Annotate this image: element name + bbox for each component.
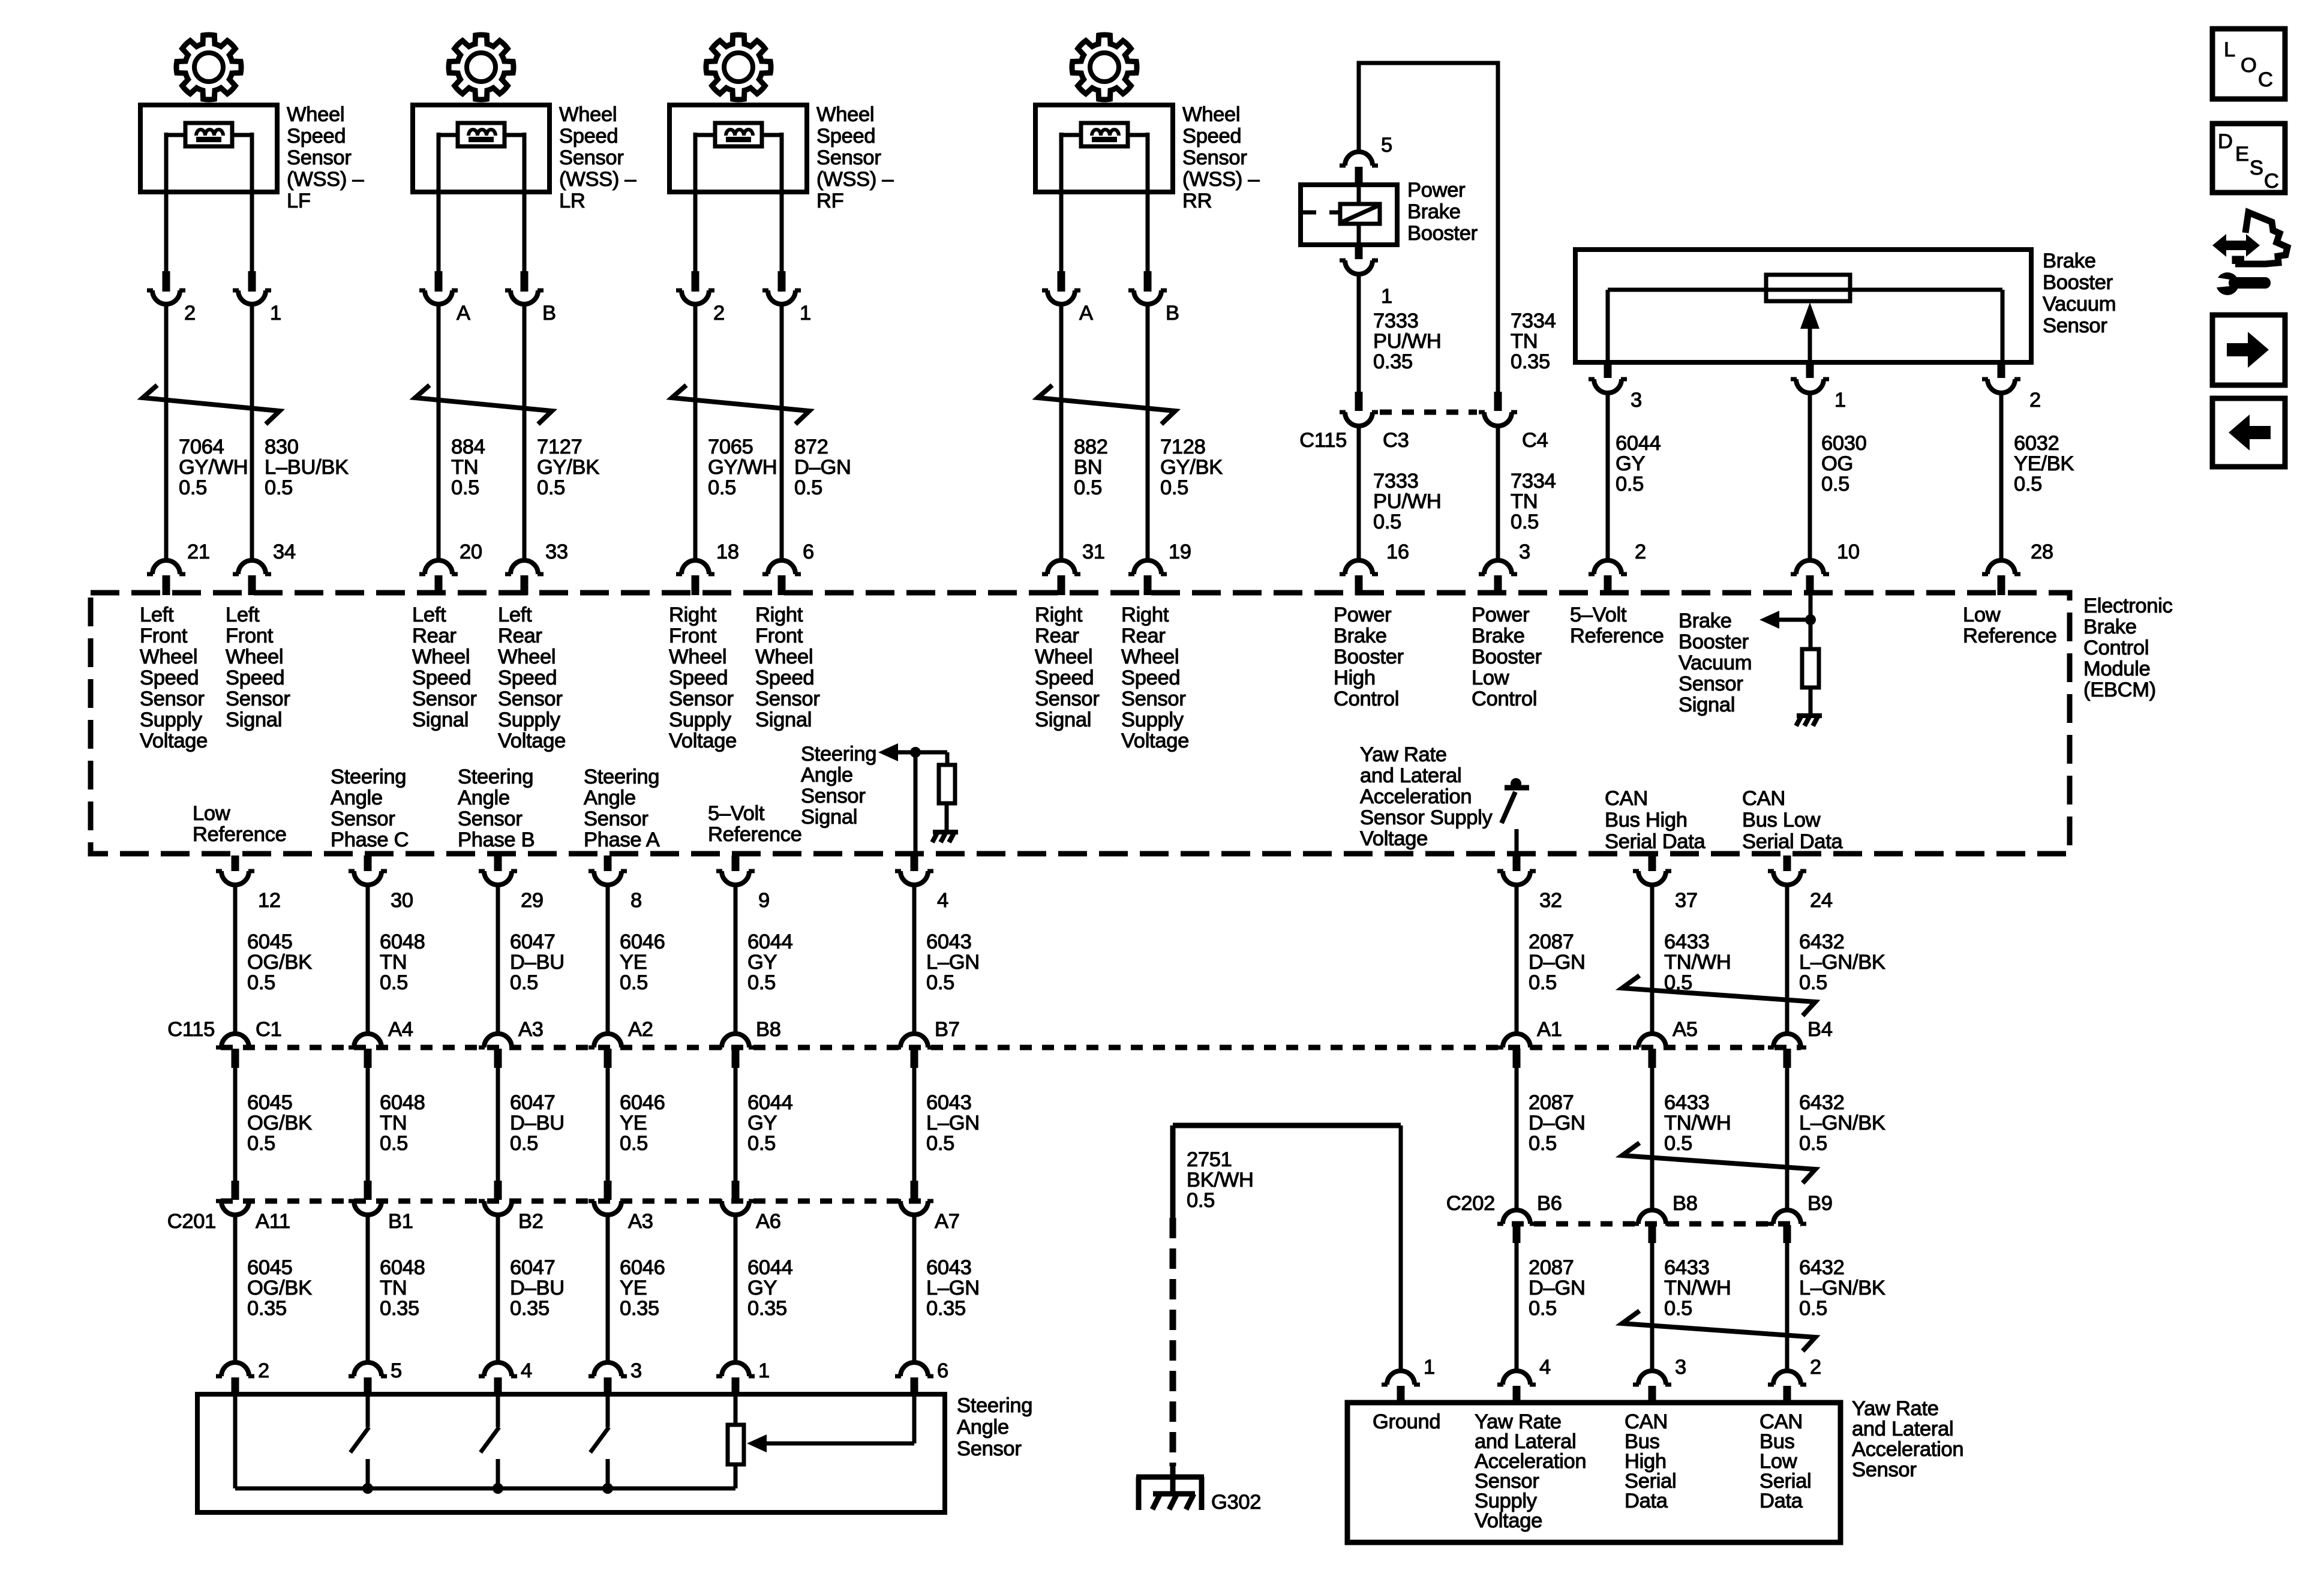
- wire 6045 OG/BK segment 2: [233, 1068, 238, 1181]
- svg-text:C201: C201: [167, 1210, 216, 1233]
- svg-text:Sensor Supply: Sensor Supply: [1360, 806, 1493, 829]
- svg-text:Booster: Booster: [1407, 222, 1478, 245]
- svg-text:6044: 6044: [747, 1091, 793, 1114]
- svg-text:32: 32: [1539, 889, 1562, 912]
- svg-text:0.5: 0.5: [1160, 476, 1188, 499]
- svg-text:4: 4: [521, 1359, 532, 1382]
- svg-text:5: 5: [1381, 134, 1392, 157]
- connector pin 1 power brake booster: [1355, 245, 1363, 259]
- dashed ground wire 2751: [1170, 1125, 1176, 1218]
- svg-text:(EBCM): (EBCM): [2083, 679, 2156, 701]
- svg-text:LR: LR: [559, 190, 585, 212]
- svg-text:0.5: 0.5: [537, 476, 565, 499]
- connector C115 cavity A2: [594, 1034, 621, 1047]
- wire 6433 TN/WH segment 2: [1650, 1068, 1655, 1209]
- svg-text:Serial Data: Serial Data: [1742, 830, 1843, 853]
- svg-text:7333: 7333: [1373, 310, 1419, 332]
- svg-text:Sensor: Sensor: [287, 146, 352, 169]
- wire 884 TN: [437, 304, 441, 560]
- svg-text:Voltage: Voltage: [669, 730, 737, 752]
- svg-text:6044: 6044: [747, 930, 793, 953]
- svg-text:D–BU: D–BU: [510, 1277, 565, 1299]
- svg-text:0.5: 0.5: [620, 971, 648, 994]
- svg-text:6047: 6047: [510, 1091, 556, 1114]
- svg-text:Speed: Speed: [816, 125, 875, 148]
- twisted-pair crossing mark WSS RR: [1038, 385, 1175, 424]
- connector pin 2 vacuum sensor: [1998, 362, 2005, 378]
- twisted-pair crossing mark WSS RF: [672, 385, 809, 424]
- svg-text:CAN: CAN: [1605, 787, 1648, 810]
- svg-text:Wheel: Wheel: [755, 646, 813, 668]
- svg-text:Sensor: Sensor: [1121, 688, 1186, 710]
- svg-text:Low: Low: [1472, 667, 1509, 689]
- svg-text:Signal: Signal: [412, 709, 469, 731]
- wire 2087 D–GN segment 2: [1515, 1068, 1519, 1209]
- svg-text:Wheel: Wheel: [287, 103, 344, 126]
- in-line connector WSS RR terminal A: [1058, 271, 1065, 292]
- wire from WSS RF pin 1: [780, 192, 784, 271]
- svg-text:Sensor: Sensor: [2043, 314, 2107, 337]
- connector C202 cavity B8: [1638, 1210, 1666, 1224]
- svg-text:Steering: Steering: [957, 1394, 1032, 1417]
- svg-text:2087: 2087: [1529, 1256, 1574, 1279]
- svg-text:Booster: Booster: [1472, 646, 1542, 668]
- EBCM pin 6 connector: [768, 560, 795, 574]
- svg-text:Sensor: Sensor: [1852, 1458, 1917, 1481]
- svg-text:Right: Right: [1121, 604, 1169, 626]
- svg-text:L–GN/BK: L–GN/BK: [1799, 1112, 1885, 1134]
- EBCM internal ground steering: [933, 830, 958, 834]
- Yaw Rate and Lateral Acceleration Sensor box: [1347, 1403, 1840, 1542]
- wire 6433 TN/WH segment 3: [1650, 1243, 1655, 1371]
- svg-text:Low: Low: [193, 802, 230, 825]
- gear icon above WSS RF: [706, 35, 771, 100]
- svg-text:Front: Front: [669, 625, 717, 647]
- vacuum sensor wiper arrow: [1808, 310, 1812, 362]
- svg-text:D–GN: D–GN: [1529, 1277, 1586, 1299]
- svg-text:12: 12: [258, 889, 281, 912]
- dashed line connector C115 row: [221, 1045, 1801, 1050]
- svg-text:YE: YE: [620, 1277, 647, 1299]
- svg-text:18: 18: [716, 541, 739, 563]
- svg-text:(WSS) –: (WSS) –: [287, 168, 364, 191]
- svg-text:21: 21: [187, 541, 210, 563]
- svg-text:OG: OG: [1821, 452, 1853, 475]
- svg-text:6048: 6048: [380, 1256, 425, 1279]
- svg-text:C115: C115: [1299, 429, 1347, 452]
- svg-text:Wheel: Wheel: [498, 646, 556, 668]
- svg-text:Sensor: Sensor: [559, 146, 624, 169]
- EBCM pin 3 connector: [1484, 560, 1512, 574]
- Wheel Speed Sensor (WSS) RR box: [1035, 105, 1173, 192]
- connector C202 cavity B9: [1773, 1210, 1801, 1224]
- wire 6047 D–BU segment 2: [496, 1068, 500, 1181]
- twisted-pair crossing mark CAN lower: [1622, 1311, 1815, 1351]
- svg-text:D–GN: D–GN: [1529, 1112, 1586, 1134]
- svg-text:LF: LF: [287, 190, 311, 212]
- svg-text:Rear: Rear: [1121, 625, 1166, 647]
- svg-text:4: 4: [1539, 1356, 1551, 1379]
- EBCM pin 33 connector: [511, 560, 538, 574]
- svg-text:Reference: Reference: [708, 823, 801, 846]
- svg-text:CAN: CAN: [1742, 787, 1785, 810]
- WSS LF sensor element: [185, 123, 232, 146]
- EBCM pin 2 connector: [1594, 560, 1622, 574]
- svg-text:6432: 6432: [1799, 1256, 1845, 1279]
- svg-text:0.5: 0.5: [247, 1132, 275, 1155]
- svg-text:6043: 6043: [926, 930, 972, 953]
- svg-text:Rear: Rear: [498, 625, 542, 647]
- svg-text:Control: Control: [1334, 688, 1399, 710]
- EBCM internal wire pin10 to resistor: [1809, 595, 1813, 649]
- svg-text:Sensor: Sensor: [458, 807, 523, 830]
- svg-text:Sensor: Sensor: [226, 688, 290, 710]
- svg-text:Speed: Speed: [1182, 125, 1241, 148]
- wire 2751 to yaw pin 1: [1399, 1125, 1403, 1371]
- svg-text:(WSS) –: (WSS) –: [816, 168, 894, 191]
- svg-text:Low: Low: [1963, 604, 2001, 626]
- svg-text:Signal: Signal: [755, 709, 812, 731]
- svg-text:2087: 2087: [1529, 930, 1574, 953]
- forward arrow icon box: [2212, 315, 2285, 385]
- wire 6046 YE segment 2: [606, 1068, 610, 1181]
- svg-text:(WSS) –: (WSS) –: [559, 168, 636, 191]
- svg-text:GY/WH: GY/WH: [179, 456, 248, 479]
- svg-text:0.5: 0.5: [1821, 473, 1849, 496]
- svg-text:7334: 7334: [1511, 310, 1556, 332]
- dashed line connector C201 row: [221, 1199, 927, 1204]
- svg-text:GY/WH: GY/WH: [708, 456, 777, 479]
- svg-text:0.5: 0.5: [1529, 1132, 1557, 1155]
- twisted-pair crossing mark WSS LF: [143, 385, 280, 424]
- svg-text:Speed: Speed: [498, 667, 557, 689]
- EBCM pin 19 connector: [1134, 560, 1161, 574]
- svg-text:8: 8: [630, 889, 642, 912]
- wire 6432 L–GN/BK segment 2: [1785, 1068, 1789, 1209]
- connector pin 1 vacuum sensor: [1806, 362, 1814, 378]
- EBCM internal ground: [1797, 713, 1822, 718]
- EBCM internal wire resistor to ground steering: [945, 803, 949, 830]
- svg-text:(WSS) –: (WSS) –: [1182, 168, 1260, 191]
- WSS RF sensor element: [715, 123, 762, 146]
- svg-text:6043: 6043: [926, 1256, 972, 1279]
- svg-text:Right: Right: [755, 604, 803, 626]
- steering angle sensor pin 6 connector: [900, 1362, 928, 1376]
- svg-text:A3: A3: [628, 1210, 653, 1233]
- svg-text:Sensor: Sensor: [1182, 146, 1247, 169]
- svg-text:Phase A: Phase A: [584, 828, 660, 851]
- wire 7128 GY/BK: [1146, 304, 1150, 560]
- EBCM bottom pin 30 connector: [364, 855, 372, 871]
- svg-text:TN: TN: [1511, 490, 1538, 513]
- svg-text:Data: Data: [1625, 1490, 1668, 1512]
- svg-text:Supply: Supply: [669, 709, 732, 731]
- svg-text:OG/BK: OG/BK: [247, 1112, 312, 1134]
- svg-text:Right: Right: [669, 604, 717, 626]
- svg-text:0.5: 0.5: [1799, 971, 1827, 994]
- svg-text:Booster: Booster: [1334, 646, 1404, 668]
- svg-text:Left: Left: [498, 604, 532, 626]
- svg-text:Sensor: Sensor: [957, 1437, 1022, 1460]
- svg-text:TN: TN: [380, 1112, 407, 1134]
- wire 6045 OG/BK segment 3: [233, 1215, 238, 1361]
- svg-text:7333: 7333: [1373, 470, 1419, 493]
- gear icon above WSS LF: [176, 35, 241, 100]
- svg-text:YE/BK: YE/BK: [2014, 452, 2074, 475]
- svg-text:7127: 7127: [537, 436, 582, 458]
- svg-text:Booster: Booster: [1679, 631, 1749, 653]
- svg-text:0.5: 0.5: [1373, 511, 1401, 533]
- svg-text:L–GN/BK: L–GN/BK: [1799, 1277, 1885, 1299]
- ground G302 symbol: [1136, 1475, 1204, 1480]
- twisted-pair crossing mark CAN middle: [1622, 1143, 1815, 1183]
- svg-text:Bus High: Bus High: [1605, 809, 1688, 831]
- svg-text:0.5: 0.5: [451, 476, 479, 499]
- svg-text:Angle: Angle: [801, 764, 853, 786]
- svg-text:Brake: Brake: [2043, 250, 2096, 272]
- svg-text:37: 37: [1675, 889, 1698, 912]
- svg-text:Supply: Supply: [140, 709, 203, 731]
- svg-text:Yaw Rate: Yaw Rate: [1852, 1397, 1939, 1420]
- svg-text:B7: B7: [935, 1018, 960, 1041]
- steering sensor wire pin 2 to bus: [233, 1394, 238, 1488]
- steering angle sensor pin 2 connector: [221, 1362, 249, 1376]
- svg-text:Angle: Angle: [584, 786, 636, 809]
- svg-text:10: 10: [1837, 541, 1860, 563]
- svg-text:Sensor: Sensor: [669, 688, 734, 710]
- svg-text:YE: YE: [620, 1112, 647, 1134]
- svg-text:0.5: 0.5: [1799, 1132, 1827, 1155]
- svg-text:0.5: 0.5: [620, 1132, 648, 1155]
- svg-text:Serial Data: Serial Data: [1605, 830, 1706, 853]
- EBCM internal brake booster vacuum sensor signal arrow: [1767, 618, 1810, 622]
- svg-text:0.35: 0.35: [247, 1297, 287, 1320]
- EBCM internal wire to pin 4: [914, 752, 918, 854]
- svg-text:Reference: Reference: [193, 823, 286, 846]
- connector C115 cavity A4: [354, 1034, 382, 1047]
- svg-text:31: 31: [1082, 541, 1105, 563]
- wire from WSS LR pin A: [437, 192, 441, 271]
- svg-text:Sensor: Sensor: [801, 785, 866, 807]
- in-line connector WSS LR terminal B: [521, 271, 529, 292]
- svg-text:6432: 6432: [1799, 930, 1845, 953]
- svg-text:Steering: Steering: [458, 766, 533, 788]
- svg-text:0.5: 0.5: [1799, 1297, 1827, 1320]
- svg-text:C202: C202: [1446, 1192, 1495, 1215]
- svg-text:Signal: Signal: [1679, 694, 1735, 716]
- steering sensor switch at x613: [366, 1394, 370, 1427]
- svg-text:6043: 6043: [926, 1091, 972, 1114]
- svg-text:Booster: Booster: [2043, 271, 2113, 294]
- EBCM internal resistor branch wire: [945, 752, 950, 765]
- svg-text:0.5: 0.5: [247, 971, 275, 994]
- wire 6030 OG: [1808, 393, 1812, 560]
- yaw sensor pin 4 connector: [1503, 1371, 1530, 1385]
- svg-text:0.5: 0.5: [1529, 1297, 1557, 1320]
- svg-text:B4: B4: [1807, 1018, 1833, 1041]
- connector pin 5 power brake booster: [1345, 152, 1373, 166]
- svg-text:A: A: [1079, 302, 1093, 325]
- svg-text:7334: 7334: [1511, 470, 1556, 493]
- svg-text:and Lateral: and Lateral: [1360, 764, 1461, 787]
- Electronic Brake Control Module (EBCM) dashed box: [91, 593, 2070, 854]
- EBCM bottom pin 9 connector: [732, 855, 740, 871]
- svg-text:6032: 6032: [2014, 432, 2059, 455]
- svg-text:0.5: 0.5: [794, 476, 822, 499]
- wire 7333 PU/WH lower: [1357, 426, 1361, 560]
- svg-text:1: 1: [758, 1359, 770, 1382]
- svg-text:5–Volt: 5–Volt: [708, 802, 765, 825]
- svg-text:0.35: 0.35: [926, 1297, 966, 1320]
- junction dot switch x613: [362, 1483, 373, 1494]
- wire from WSS RR pin B: [1146, 192, 1150, 271]
- svg-text:Speed: Speed: [1121, 667, 1180, 689]
- wire 830 L–BU/BK: [250, 304, 254, 560]
- svg-text:C4: C4: [1522, 429, 1548, 452]
- wire 6043 L–GN segment 2: [912, 1068, 917, 1181]
- gear icon above WSS LR: [449, 35, 514, 100]
- EBCM internal wire resistor to ground: [1809, 688, 1813, 714]
- svg-text:TN: TN: [380, 1277, 407, 1299]
- svg-text:Electronic: Electronic: [2083, 595, 2173, 617]
- LOC icon box: [2212, 29, 2285, 99]
- wire 6045 OG/BK segment 1: [233, 885, 238, 1034]
- svg-text:Rear: Rear: [412, 625, 457, 647]
- dashed line C115 booster row: [1380, 410, 1477, 415]
- svg-text:Wheel: Wheel: [226, 646, 283, 668]
- svg-text:20: 20: [460, 541, 482, 563]
- connector cavity B4: [1773, 1034, 1801, 1047]
- svg-text:Bus Low: Bus Low: [1742, 809, 1821, 831]
- DESC icon box: [2212, 124, 2285, 193]
- svg-text:0.5: 0.5: [265, 476, 293, 499]
- svg-text:C3: C3: [1383, 429, 1409, 452]
- svg-text:Sensor: Sensor: [498, 688, 563, 710]
- svg-text:Wheel: Wheel: [1182, 103, 1240, 126]
- in-line connector WSS LF terminal 2: [163, 271, 170, 292]
- svg-text:B8: B8: [756, 1018, 781, 1041]
- EBCM bottom pin 12 connector: [232, 855, 239, 871]
- svg-text:6048: 6048: [380, 930, 425, 953]
- wire 6432 L–GN/BK segment 1: [1785, 885, 1789, 1034]
- splice symbol yaw rate supply: [1505, 785, 1529, 791]
- wire 6044 GY segment 3: [734, 1215, 738, 1361]
- svg-text:GY: GY: [747, 1277, 777, 1299]
- svg-text:A5: A5: [1673, 1018, 1698, 1041]
- steering sensor potentiometer: [734, 1394, 738, 1425]
- svg-text:D: D: [2218, 130, 2233, 153]
- svg-text:Vacuum: Vacuum: [2043, 293, 2116, 316]
- svg-text:Ground: Ground: [1373, 1410, 1440, 1433]
- svg-text:0.5: 0.5: [708, 476, 736, 499]
- parts info icon double arrow: [2212, 234, 2260, 257]
- junction node vacuum sensor signal: [1805, 614, 1816, 625]
- svg-text:0.5: 0.5: [510, 971, 538, 994]
- svg-text:Phase C: Phase C: [331, 828, 409, 851]
- svg-text:0.5: 0.5: [380, 971, 408, 994]
- svg-text:Speed: Speed: [287, 125, 346, 148]
- EBCM bottom pin 32 connector: [1513, 855, 1521, 871]
- steering sensor wiper arrow: [766, 1442, 914, 1446]
- wire from WSS LF pin 1: [250, 192, 254, 271]
- Wheel Speed Sensor (WSS) LR box: [413, 105, 550, 192]
- svg-text:High: High: [1334, 667, 1376, 689]
- svg-text:A6: A6: [756, 1210, 781, 1233]
- Steering Angle Sensor box: [197, 1394, 945, 1512]
- svg-text:A: A: [457, 302, 470, 325]
- wire 7065 GY/WH: [693, 304, 698, 560]
- wire 6044 GY segment 2: [734, 1068, 738, 1181]
- svg-text:6044: 6044: [747, 1256, 793, 1279]
- wire 6032 YE/BK: [1999, 393, 2004, 560]
- svg-text:GY: GY: [747, 951, 777, 974]
- connector C201 cavity A3: [604, 1181, 612, 1200]
- svg-text:L–GN/BK: L–GN/BK: [1799, 951, 1885, 974]
- svg-text:Sensor: Sensor: [755, 688, 820, 710]
- svg-text:0.35: 0.35: [1373, 350, 1413, 373]
- EBCM bottom pin 37 connector: [1649, 855, 1656, 871]
- svg-text:Steering: Steering: [801, 743, 876, 766]
- svg-text:Wheel: Wheel: [1035, 646, 1092, 668]
- svg-text:Right: Right: [1035, 604, 1083, 626]
- svg-text:and Lateral: and Lateral: [1852, 1418, 1953, 1440]
- svg-text:Power: Power: [1334, 604, 1391, 626]
- svg-text:B6: B6: [1537, 1192, 1562, 1215]
- junction dot switch x1013: [602, 1483, 613, 1494]
- wire 7127 GY/BK: [523, 304, 527, 560]
- WSS LR sensor element: [458, 123, 505, 146]
- svg-text:9: 9: [758, 889, 770, 912]
- svg-text:6433: 6433: [1664, 930, 1710, 953]
- WSS LF internal leads: [166, 133, 185, 137]
- svg-text:Voltage: Voltage: [1360, 827, 1428, 850]
- EBCM pin 28 connector: [1987, 560, 2015, 574]
- svg-text:Rear: Rear: [1035, 625, 1079, 647]
- svg-text:6433: 6433: [1664, 1091, 1710, 1114]
- svg-text:Signal: Signal: [1035, 709, 1091, 731]
- in-line connector WSS RF terminal 1: [778, 271, 786, 292]
- svg-text:Supply: Supply: [498, 709, 561, 731]
- svg-text:Sensor: Sensor: [816, 146, 881, 169]
- svg-text:Data: Data: [1759, 1490, 1803, 1512]
- svg-text:Brake: Brake: [1407, 200, 1461, 223]
- svg-text:0.5: 0.5: [926, 1132, 954, 1155]
- svg-text:D–GN: D–GN: [794, 456, 851, 479]
- svg-text:BK/WH: BK/WH: [1187, 1169, 1254, 1191]
- vacuum sensor element: [1766, 275, 1850, 301]
- parts info icon wrench: [2216, 272, 2239, 295]
- svg-text:Steering: Steering: [584, 766, 659, 788]
- EBCM pin 10 connector: [1796, 560, 1824, 574]
- svg-text:Angle: Angle: [957, 1416, 1009, 1439]
- svg-text:Speed: Speed: [140, 667, 199, 689]
- svg-text:B8: B8: [1673, 1192, 1698, 1215]
- svg-text:D–GN: D–GN: [1529, 951, 1586, 974]
- svg-text:B: B: [542, 302, 556, 325]
- svg-text:3: 3: [1675, 1356, 1686, 1379]
- in-line connector WSS LF terminal 1: [248, 271, 256, 292]
- wire from WSS RR pin A: [1059, 192, 1064, 271]
- svg-text:Sensor: Sensor: [1035, 688, 1100, 710]
- EBCM bottom pin 29 connector: [494, 855, 502, 871]
- svg-text:Speed: Speed: [559, 125, 618, 148]
- svg-text:2: 2: [713, 302, 725, 325]
- wire 6044 GY segment 1: [734, 885, 738, 1034]
- connector C115 cavity A3: [484, 1034, 512, 1047]
- WSS LR internal leads: [439, 133, 458, 137]
- wire 6047 D–BU segment 3: [496, 1215, 500, 1361]
- svg-text:0.5: 0.5: [1664, 1297, 1692, 1320]
